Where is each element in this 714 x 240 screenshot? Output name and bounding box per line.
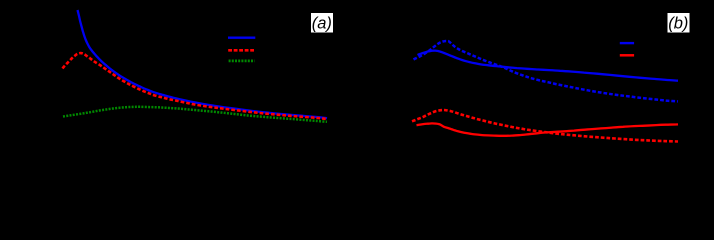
svg-text:(b): (b) — [668, 15, 688, 33]
panel (a) curve: blue solid — [78, 10, 328, 118]
panel label (b) box — [668, 13, 690, 33]
panel (a) curve: red dashed — [63, 53, 328, 119]
svg-text:(a): (a) — [312, 15, 332, 33]
panel (a) curve: green dotted — [63, 107, 327, 122]
panel (b) curve: red dashed — [412, 110, 678, 142]
panel (b) curve: blue dashed — [414, 41, 679, 101]
panel (b) curve: red solid — [417, 123, 679, 135]
panel (b) legend: red solid sample — [620, 54, 634, 57]
panel (a) legend: green dotted sample — [229, 60, 255, 63]
panel label (a) box — [311, 13, 333, 33]
panel (b) legend: blue solid sample — [620, 42, 634, 44]
panel (a) legend: red dashed sample — [228, 49, 254, 52]
panel (a) legend: blue solid sample — [228, 37, 255, 39]
panel (b) curve: blue solid — [418, 51, 679, 81]
